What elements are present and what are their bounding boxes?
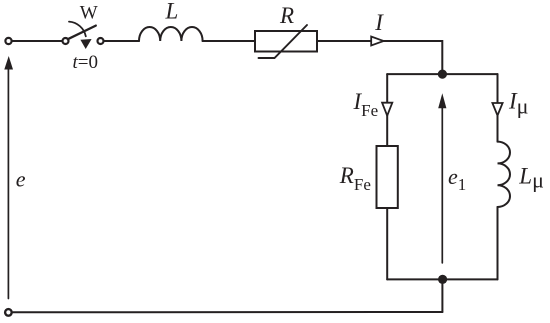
resistor R body	[255, 31, 317, 52]
wire inductor to resistor	[203, 40, 255, 42]
inductor L	[139, 27, 203, 41]
terminal bottom-left	[5, 309, 12, 316]
arrowhead I_mu	[492, 103, 502, 116]
switch W arrowhead	[80, 39, 91, 49]
current arrow I	[371, 37, 383, 46]
voltage arrow e1 line	[441, 107, 443, 263]
svg-text:Lμ: Lμ	[518, 163, 544, 192]
svg-text:e: e	[16, 166, 26, 191]
emf arrow e head	[4, 56, 13, 70]
emf arrow e line	[7, 69, 9, 299]
wire bottom rail	[387, 278, 497, 280]
svg-text:e1: e1	[448, 164, 466, 194]
svg-text:RFe: RFe	[339, 163, 371, 194]
wire left branch lower	[386, 208, 388, 279]
wire terminal to switch	[12, 40, 62, 42]
terminal top-left	[5, 38, 11, 44]
node junction bottom	[438, 275, 447, 284]
switch W blade	[68, 26, 96, 40]
resistor R nonlinearity stroke	[259, 25, 308, 58]
svg-text:Iμ: Iμ	[508, 89, 528, 119]
resistor R_Fe body	[377, 146, 398, 208]
wire top rail	[387, 73, 497, 75]
wire left branch upper	[386, 74, 388, 146]
wire node down	[441, 279, 443, 312]
svg-text:IFe: IFe	[353, 89, 379, 120]
switch W actuation arc	[69, 22, 86, 37]
svg-text:L: L	[165, 0, 179, 24]
wire bottom return	[13, 311, 442, 313]
node junction top	[438, 70, 447, 79]
switch W left contact	[63, 38, 69, 44]
arrowhead I_Fe	[382, 103, 392, 116]
svg-text:I: I	[374, 10, 384, 35]
wire right branch lower	[497, 207, 499, 279]
voltage arrow e1 head	[438, 93, 446, 108]
switch W right contact	[98, 38, 104, 44]
inductor L_mu	[498, 142, 511, 207]
wire right branch upper	[497, 74, 499, 142]
svg-text:R: R	[279, 3, 294, 28]
wire resistor to corner and down to node	[317, 41, 442, 74]
svg-text:t=0: t=0	[73, 52, 99, 73]
wire switch to inductor	[104, 40, 139, 42]
svg-text:W: W	[80, 3, 98, 24]
